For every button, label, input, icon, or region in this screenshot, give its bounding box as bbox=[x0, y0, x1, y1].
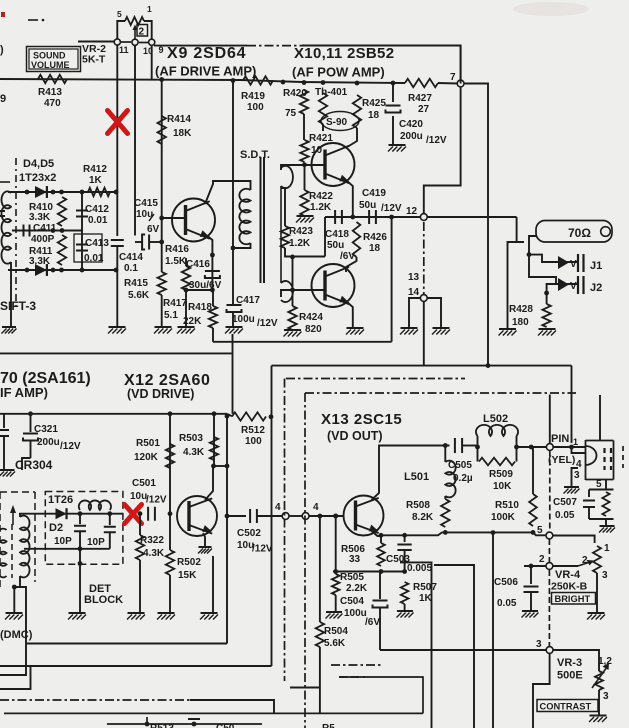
svg-text:33: 33 bbox=[349, 554, 361, 565]
IF box dash right bbox=[34, 492, 36, 582]
CRT socket left line bbox=[585, 440, 587, 480]
svg-text:V: V bbox=[570, 259, 577, 270]
resistor R503 bbox=[210, 437, 218, 460]
svg-text:1: 1 bbox=[604, 543, 610, 554]
tank node right bbox=[514, 445, 519, 450]
svg-text:10u: 10u bbox=[130, 491, 147, 502]
C415 junction bbox=[159, 240, 164, 245]
wire node2 wiper bbox=[553, 565, 578, 567]
ground crt network bbox=[600, 525, 615, 527]
SDT secondary top loop bbox=[281, 166, 293, 188]
resistor R428 bbox=[542, 304, 550, 327]
svg-text:1.2K: 1.2K bbox=[289, 238, 311, 249]
svg-text:13: 13 bbox=[408, 272, 420, 283]
resistor R322 bbox=[136, 535, 144, 560]
svg-text:R510: R510 bbox=[495, 500, 519, 511]
BRIGHT box bbox=[552, 593, 596, 605]
svg-text:5.1: 5.1 bbox=[164, 310, 178, 321]
svg-text:S.D.T.: S.D.T. bbox=[240, 149, 270, 161]
resistor R501 wire bbox=[169, 414, 171, 514]
svg-text:X10,11 2SB52: X10,11 2SB52 bbox=[294, 45, 394, 62]
junction f bbox=[355, 81, 360, 86]
wire coil bottom bbox=[14, 576, 20, 587]
wire C504 to node3 bbox=[379, 609, 381, 651]
svg-text:C504: C504 bbox=[340, 596, 364, 607]
ground coil bottom left bbox=[6, 612, 23, 614]
wire R502 top bbox=[169, 514, 171, 550]
junction c wire bbox=[225, 464, 230, 469]
wire R414 line bbox=[161, 80, 163, 273]
VR-2 terminal circle pin 9 bbox=[149, 39, 155, 45]
ground under VR3 bbox=[590, 715, 607, 717]
svg-text:27: 27 bbox=[418, 104, 430, 115]
svg-text:R502: R502 bbox=[177, 557, 201, 568]
VR-2 wiper box 2 bbox=[137, 25, 148, 37]
svg-text:R412: R412 bbox=[83, 164, 107, 175]
junction C503 top bbox=[402, 533, 407, 538]
ground under R415 bbox=[155, 326, 172, 328]
svg-text:Th-401: Th-401 bbox=[315, 87, 348, 98]
X10 base wire bbox=[281, 165, 325, 170]
svg-text:PIN: PIN bbox=[551, 433, 569, 445]
IF coil left bbox=[1, 191, 11, 263]
dash-dot node12 to 13 bbox=[423, 222, 425, 294]
CRT heater riser bbox=[599, 395, 601, 441]
dash-dot boundary L1 horizontal bbox=[286, 378, 465, 380]
svg-text:L502: L502 bbox=[483, 413, 508, 425]
wire CR304 elbow bbox=[22, 458, 31, 470]
dash-dot node5 to node2 bbox=[548, 539, 550, 562]
resistor R420 bbox=[300, 90, 308, 114]
wire coil top bbox=[10, 192, 12, 193]
capacitor C417 bbox=[227, 305, 242, 312]
capacitor C321 wire bbox=[30, 414, 32, 432]
speaker circle bbox=[601, 227, 611, 237]
emitter row ground wire bbox=[212, 556, 214, 613]
X11 base wire bbox=[281, 290, 325, 297]
wire jack common bbox=[508, 242, 525, 329]
svg-text:R418: R418 bbox=[188, 302, 212, 313]
svg-text:R414: R414 bbox=[167, 114, 191, 125]
wire sift tap bbox=[80, 269, 116, 271]
junction t1 bbox=[25, 190, 30, 195]
junction det bottom bbox=[78, 546, 83, 551]
X9 emitter junction bbox=[210, 253, 215, 258]
svg-text:3: 3 bbox=[536, 639, 542, 650]
svg-text:2.2K: 2.2K bbox=[346, 583, 368, 594]
feedback riser bbox=[391, 217, 393, 342]
IF out coil left bbox=[0, 529, 6, 578]
resistor crt parallel bbox=[602, 492, 609, 516]
junction rail a bbox=[28, 411, 33, 416]
dash-dot boundary L2 horizontal bbox=[305, 392, 576, 394]
ground det block bbox=[69, 612, 86, 614]
left edge stub bbox=[3, 414, 5, 428]
svg-text:BLOCK: BLOCK bbox=[84, 594, 123, 606]
svg-text:5.6K: 5.6K bbox=[128, 290, 150, 301]
VR-2 terminal 5 wire bbox=[117, 21, 125, 39]
svg-text:1K: 1K bbox=[419, 593, 433, 604]
svg-text:15K: 15K bbox=[178, 570, 197, 581]
svg-text:/6V: /6V bbox=[365, 617, 380, 628]
routing wire y562 bbox=[400, 562, 432, 728]
svg-text:22K: 22K bbox=[183, 316, 202, 327]
wire J2 to R428 bbox=[547, 284, 556, 304]
supply link wire bbox=[272, 365, 572, 367]
dashed box 1T26 bbox=[45, 492, 123, 565]
VR-2 terminal circle pin 10 bbox=[132, 39, 138, 45]
svg-text:IF AMP): IF AMP) bbox=[0, 385, 48, 400]
svg-text:R413: R413 bbox=[38, 87, 62, 98]
resistor R505 bbox=[332, 574, 340, 595]
svg-text:/12V: /12V bbox=[426, 135, 447, 146]
C507 left post bbox=[588, 490, 590, 498]
wire R426 bottom bbox=[346, 257, 357, 272]
junction primary bottom bbox=[231, 246, 236, 251]
IF out coil right bbox=[20, 516, 30, 578]
junction supply link bbox=[486, 363, 491, 368]
jack J1 triangle bbox=[558, 256, 569, 269]
ground under X11 bbox=[347, 327, 364, 329]
svg-text:70Ω: 70Ω bbox=[568, 226, 591, 240]
bottom junction a bbox=[145, 722, 150, 727]
wire supply to crt bbox=[571, 366, 573, 443]
wire R322 top bbox=[139, 514, 141, 535]
det cap b wire2 bbox=[109, 533, 111, 549]
wire node3 below bbox=[533, 653, 550, 728]
bottom cap stub a bbox=[146, 717, 148, 724]
junction g bbox=[391, 81, 396, 86]
capacitor C412 bbox=[76, 211, 88, 217]
wire R417 top bbox=[185, 258, 187, 266]
svg-text:R420: R420 bbox=[283, 88, 307, 99]
capacitor C502 wire bbox=[227, 515, 246, 517]
potentiometer VR-3 bbox=[595, 671, 603, 690]
resistor R425 bbox=[353, 95, 361, 128]
junction m2 bbox=[60, 228, 65, 233]
audio to vd link bbox=[232, 334, 234, 414]
wire node2 left bbox=[524, 565, 546, 567]
resistor R506 bbox=[377, 543, 385, 566]
wire C414 down bbox=[116, 246, 118, 327]
wire R418 top bbox=[212, 290, 214, 306]
svg-text:1.2K: 1.2K bbox=[310, 202, 332, 213]
ground under coil bbox=[2, 326, 16, 328]
wire 13 left bbox=[409, 298, 420, 328]
coil L502 bbox=[476, 425, 518, 436]
ground coil bottom bbox=[10, 262, 12, 327]
resistor R415 bbox=[158, 272, 166, 295]
svg-text:/12V: /12V bbox=[381, 203, 402, 214]
wire X11 base drop bbox=[324, 217, 326, 257]
svg-text:10P: 10P bbox=[87, 537, 105, 548]
wire R423 top bbox=[281, 188, 285, 226]
svg-text:R419: R419 bbox=[241, 91, 265, 102]
ground under R502 bbox=[158, 612, 175, 614]
junction x493 bbox=[491, 530, 496, 535]
capacitor C418 bbox=[335, 210, 342, 224]
speaker wire bbox=[427, 216, 516, 218]
svg-text:R505: R505 bbox=[340, 572, 364, 583]
wire R502 bottom bbox=[169, 575, 171, 613]
SOUND VOLUME box inner bbox=[29, 49, 78, 69]
svg-text:1: 1 bbox=[147, 4, 152, 14]
wire coil to base bbox=[19, 514, 21, 517]
ground under VR4 bbox=[588, 612, 605, 614]
svg-text:(AF DRIVE AMP): (AF DRIVE AMP) bbox=[155, 64, 256, 79]
junction coil gnd bbox=[12, 585, 17, 590]
X9 emitter wire bbox=[208, 236, 213, 290]
VR-2 terminal circle pin 11 bbox=[114, 39, 120, 45]
svg-text:1T26: 1T26 bbox=[48, 494, 73, 506]
SOUND VOLUME box outer bbox=[27, 47, 81, 72]
svg-text:11: 11 bbox=[119, 45, 129, 55]
junction rail c bbox=[212, 411, 217, 416]
wire tank to PIN bbox=[517, 446, 547, 448]
wire R322 bottom bbox=[139, 560, 141, 613]
transistor X13 bbox=[344, 496, 384, 536]
svg-text:400P: 400P bbox=[31, 234, 55, 245]
svg-text:5: 5 bbox=[537, 525, 543, 536]
svg-text:C419: C419 bbox=[362, 188, 386, 199]
wire bias to R421 bbox=[303, 114, 305, 140]
detector top rail bbox=[8, 191, 117, 193]
svg-text:100u: 100u bbox=[344, 608, 367, 619]
resistor R507 bbox=[401, 582, 409, 604]
coupling wire y217 bbox=[325, 216, 421, 218]
CRT socket right bbox=[613, 441, 615, 480]
ground left 2SA161 bbox=[0, 469, 15, 471]
resistor R419 bbox=[243, 76, 273, 84]
capacitor C416 bbox=[205, 271, 220, 278]
resistor R421 bbox=[300, 140, 308, 162]
svg-text:1.5K: 1.5K bbox=[165, 256, 187, 267]
svg-text:10K: 10K bbox=[493, 481, 512, 492]
bottom border bbox=[4, 712, 423, 714]
svg-text:R424: R424 bbox=[299, 312, 323, 323]
svg-text:J1: J1 bbox=[590, 260, 602, 272]
wire C412 line bbox=[81, 192, 83, 270]
wire 13 right bbox=[427, 298, 441, 328]
wire supply drop bbox=[460, 46, 462, 84]
resistor R423 bbox=[281, 226, 289, 248]
det block ground wire bbox=[79, 549, 81, 613]
svg-text:50u: 50u bbox=[359, 200, 376, 211]
lower node wire bbox=[333, 571, 405, 573]
svg-text:R501: R501 bbox=[136, 438, 160, 449]
junction c bbox=[281, 80, 286, 85]
svg-text:VR-4: VR-4 bbox=[555, 569, 581, 581]
resistor R426 bbox=[353, 222, 361, 257]
junction R505 top bbox=[333, 514, 338, 519]
speaker feed wire bbox=[529, 236, 536, 255]
svg-text:18: 18 bbox=[368, 110, 380, 121]
svg-text:3: 3 bbox=[602, 570, 608, 581]
ground under R322 bbox=[128, 612, 145, 614]
wire R415 to ground bbox=[161, 295, 163, 327]
svg-text:S-90: S-90 bbox=[326, 117, 348, 128]
wire node7 to node12 bbox=[424, 87, 461, 214]
det cap a bbox=[74, 526, 86, 532]
node PIN circle bbox=[546, 444, 553, 451]
junction b4 bbox=[80, 268, 85, 273]
CRT dash right bbox=[622, 446, 624, 468]
svg-text:2: 2 bbox=[139, 27, 145, 38]
detector bottom rail bbox=[8, 269, 116, 271]
junction R428 top bbox=[544, 291, 549, 296]
svg-text:100: 100 bbox=[247, 102, 264, 113]
det bottom wire bbox=[24, 548, 110, 550]
scan smudge bbox=[513, 2, 589, 16]
wire crt5 down bbox=[605, 480, 607, 490]
routing corner left a bbox=[0, 644, 26, 676]
wire C506 drop bbox=[530, 566, 532, 584]
tank left post bbox=[477, 436, 479, 462]
svg-text:SOUND: SOUND bbox=[33, 51, 66, 61]
capacitor C505 bbox=[455, 438, 462, 453]
svg-text:SIFT-3: SIFT-3 bbox=[0, 299, 36, 313]
junction det b bbox=[107, 511, 112, 516]
SDT core bbox=[260, 157, 262, 283]
bottom partial wire bbox=[107, 723, 262, 725]
wire PIN to CRT bbox=[553, 446, 586, 448]
ground under C506 bbox=[522, 610, 538, 612]
left edge cap bbox=[0, 430, 9, 436]
X12 collector diag bbox=[205, 466, 213, 500]
wire R506 top bbox=[380, 535, 382, 543]
wire R505 line bbox=[335, 516, 337, 574]
C415 wire left bbox=[135, 241, 142, 243]
svg-text:C418: C418 bbox=[325, 229, 349, 240]
svg-text:R425: R425 bbox=[362, 98, 386, 109]
det cap a wire bbox=[79, 514, 81, 524]
wire pin10 down bbox=[134, 46, 136, 236]
capacitor C414 bbox=[111, 240, 124, 246]
junction b2 bbox=[51, 268, 56, 273]
node 12 circle bbox=[420, 214, 427, 221]
resistor R508 bbox=[441, 499, 449, 527]
junction R508 bottom bbox=[443, 530, 448, 535]
wire R427 to node 7 bbox=[438, 82, 458, 85]
svg-text:(VD OUT): (VD OUT) bbox=[327, 429, 383, 443]
C415 wire right bbox=[149, 241, 162, 243]
svg-text:L501: L501 bbox=[404, 471, 429, 483]
resistor R418 bbox=[209, 306, 217, 328]
svg-text:4.3K: 4.3K bbox=[183, 447, 205, 458]
resistor R501 bbox=[166, 444, 174, 468]
resistor R412 bbox=[88, 188, 110, 196]
svg-text:C414: C414 bbox=[119, 252, 143, 263]
svg-text:X13 2SC15: X13 2SC15 bbox=[321, 411, 402, 428]
svg-text:/12V: /12V bbox=[60, 441, 81, 452]
svg-text:4: 4 bbox=[313, 502, 319, 513]
capacitor C415 bbox=[142, 235, 149, 250]
IF tuning arrow bbox=[12, 508, 14, 525]
svg-text:/12V: /12V bbox=[257, 318, 278, 329]
resistor R504 bbox=[316, 622, 324, 647]
X9 collector wire bbox=[205, 181, 251, 204]
svg-text:180: 180 bbox=[512, 317, 529, 328]
svg-text:10P: 10P bbox=[54, 536, 72, 547]
svg-text:820: 820 bbox=[305, 324, 322, 335]
junction emitter x10 bbox=[350, 215, 355, 220]
VR-2 terminal 1 wire bbox=[144, 21, 152, 39]
junction R505 wire bbox=[333, 569, 338, 574]
tank node left bbox=[475, 445, 480, 450]
capacitor C503 stub bbox=[404, 535, 406, 542]
wire node4 to X13 bbox=[309, 515, 343, 517]
wire node7 right bbox=[464, 84, 488, 366]
junction C502 tap bbox=[225, 514, 230, 519]
wire VR3 ground bbox=[598, 690, 600, 715]
red X mark lower bbox=[125, 505, 142, 524]
wire node3 right bbox=[553, 650, 599, 655]
coil L501 bbox=[445, 461, 455, 498]
wire between nodes 4 bbox=[289, 515, 302, 517]
svg-text:0.05: 0.05 bbox=[497, 598, 517, 609]
resistor R417 bbox=[182, 266, 190, 290]
capacitor C419 bbox=[369, 210, 376, 224]
node 4 left circle bbox=[282, 513, 289, 520]
junction det box edge bbox=[78, 561, 83, 566]
junction crt pin3 wire bbox=[569, 445, 574, 450]
C507 network top wire bbox=[589, 489, 614, 491]
capacitor C501 bbox=[148, 507, 155, 521]
svg-text:X9 2SD64: X9 2SD64 bbox=[167, 45, 246, 62]
wire R505 bottom bbox=[335, 595, 337, 612]
R512 out riser bbox=[271, 366, 273, 666]
svg-text:C321: C321 bbox=[34, 424, 58, 435]
C507 network bottom wire bbox=[589, 518, 614, 520]
junction R322 top bbox=[138, 511, 143, 516]
wire R504 line bbox=[319, 516, 321, 622]
wire L501 top bbox=[444, 446, 446, 463]
svg-text:200u: 200u bbox=[37, 437, 60, 448]
det cap b wire bbox=[109, 514, 111, 525]
node 13-14 circle bbox=[420, 295, 427, 302]
svg-text:D2: D2 bbox=[49, 522, 63, 534]
routing corner left b bbox=[0, 666, 31, 689]
tank right post bbox=[516, 436, 518, 462]
junction emitter rail bbox=[379, 533, 384, 538]
det cap a wire2 bbox=[79, 532, 81, 549]
diode D5 bbox=[35, 264, 47, 276]
resistor R503 wire bbox=[213, 414, 215, 466]
wire crt pin3 ground bbox=[572, 468, 579, 487]
junction b1 bbox=[25, 268, 30, 273]
wire C417 drop bbox=[232, 81, 234, 305]
junction det a bbox=[78, 511, 83, 516]
resistor R424 bbox=[288, 306, 296, 330]
resistor R502 bbox=[166, 550, 174, 575]
svg-text:0.1: 0.1 bbox=[124, 263, 138, 274]
IF boundary dash top bbox=[0, 181, 10, 183]
wire 14 down bbox=[423, 301, 425, 365]
capacitor C507 bbox=[583, 501, 595, 508]
capacitor C506 bbox=[524, 587, 539, 593]
dash-dot y700 bbox=[0, 699, 190, 701]
wire R418 to rail bbox=[212, 328, 214, 342]
stray dash-dot top-left bbox=[28, 19, 38, 21]
ground under C417 bbox=[226, 326, 243, 328]
X9 base junction bbox=[159, 216, 164, 221]
wire r425 bottom bbox=[356, 128, 358, 136]
svg-text:75: 75 bbox=[285, 108, 297, 119]
svg-text:R427: R427 bbox=[408, 93, 432, 104]
C414 junction bbox=[114, 268, 119, 273]
wire VR4 ground bbox=[596, 573, 598, 613]
left edge cap mark bbox=[0, 211, 5, 216]
